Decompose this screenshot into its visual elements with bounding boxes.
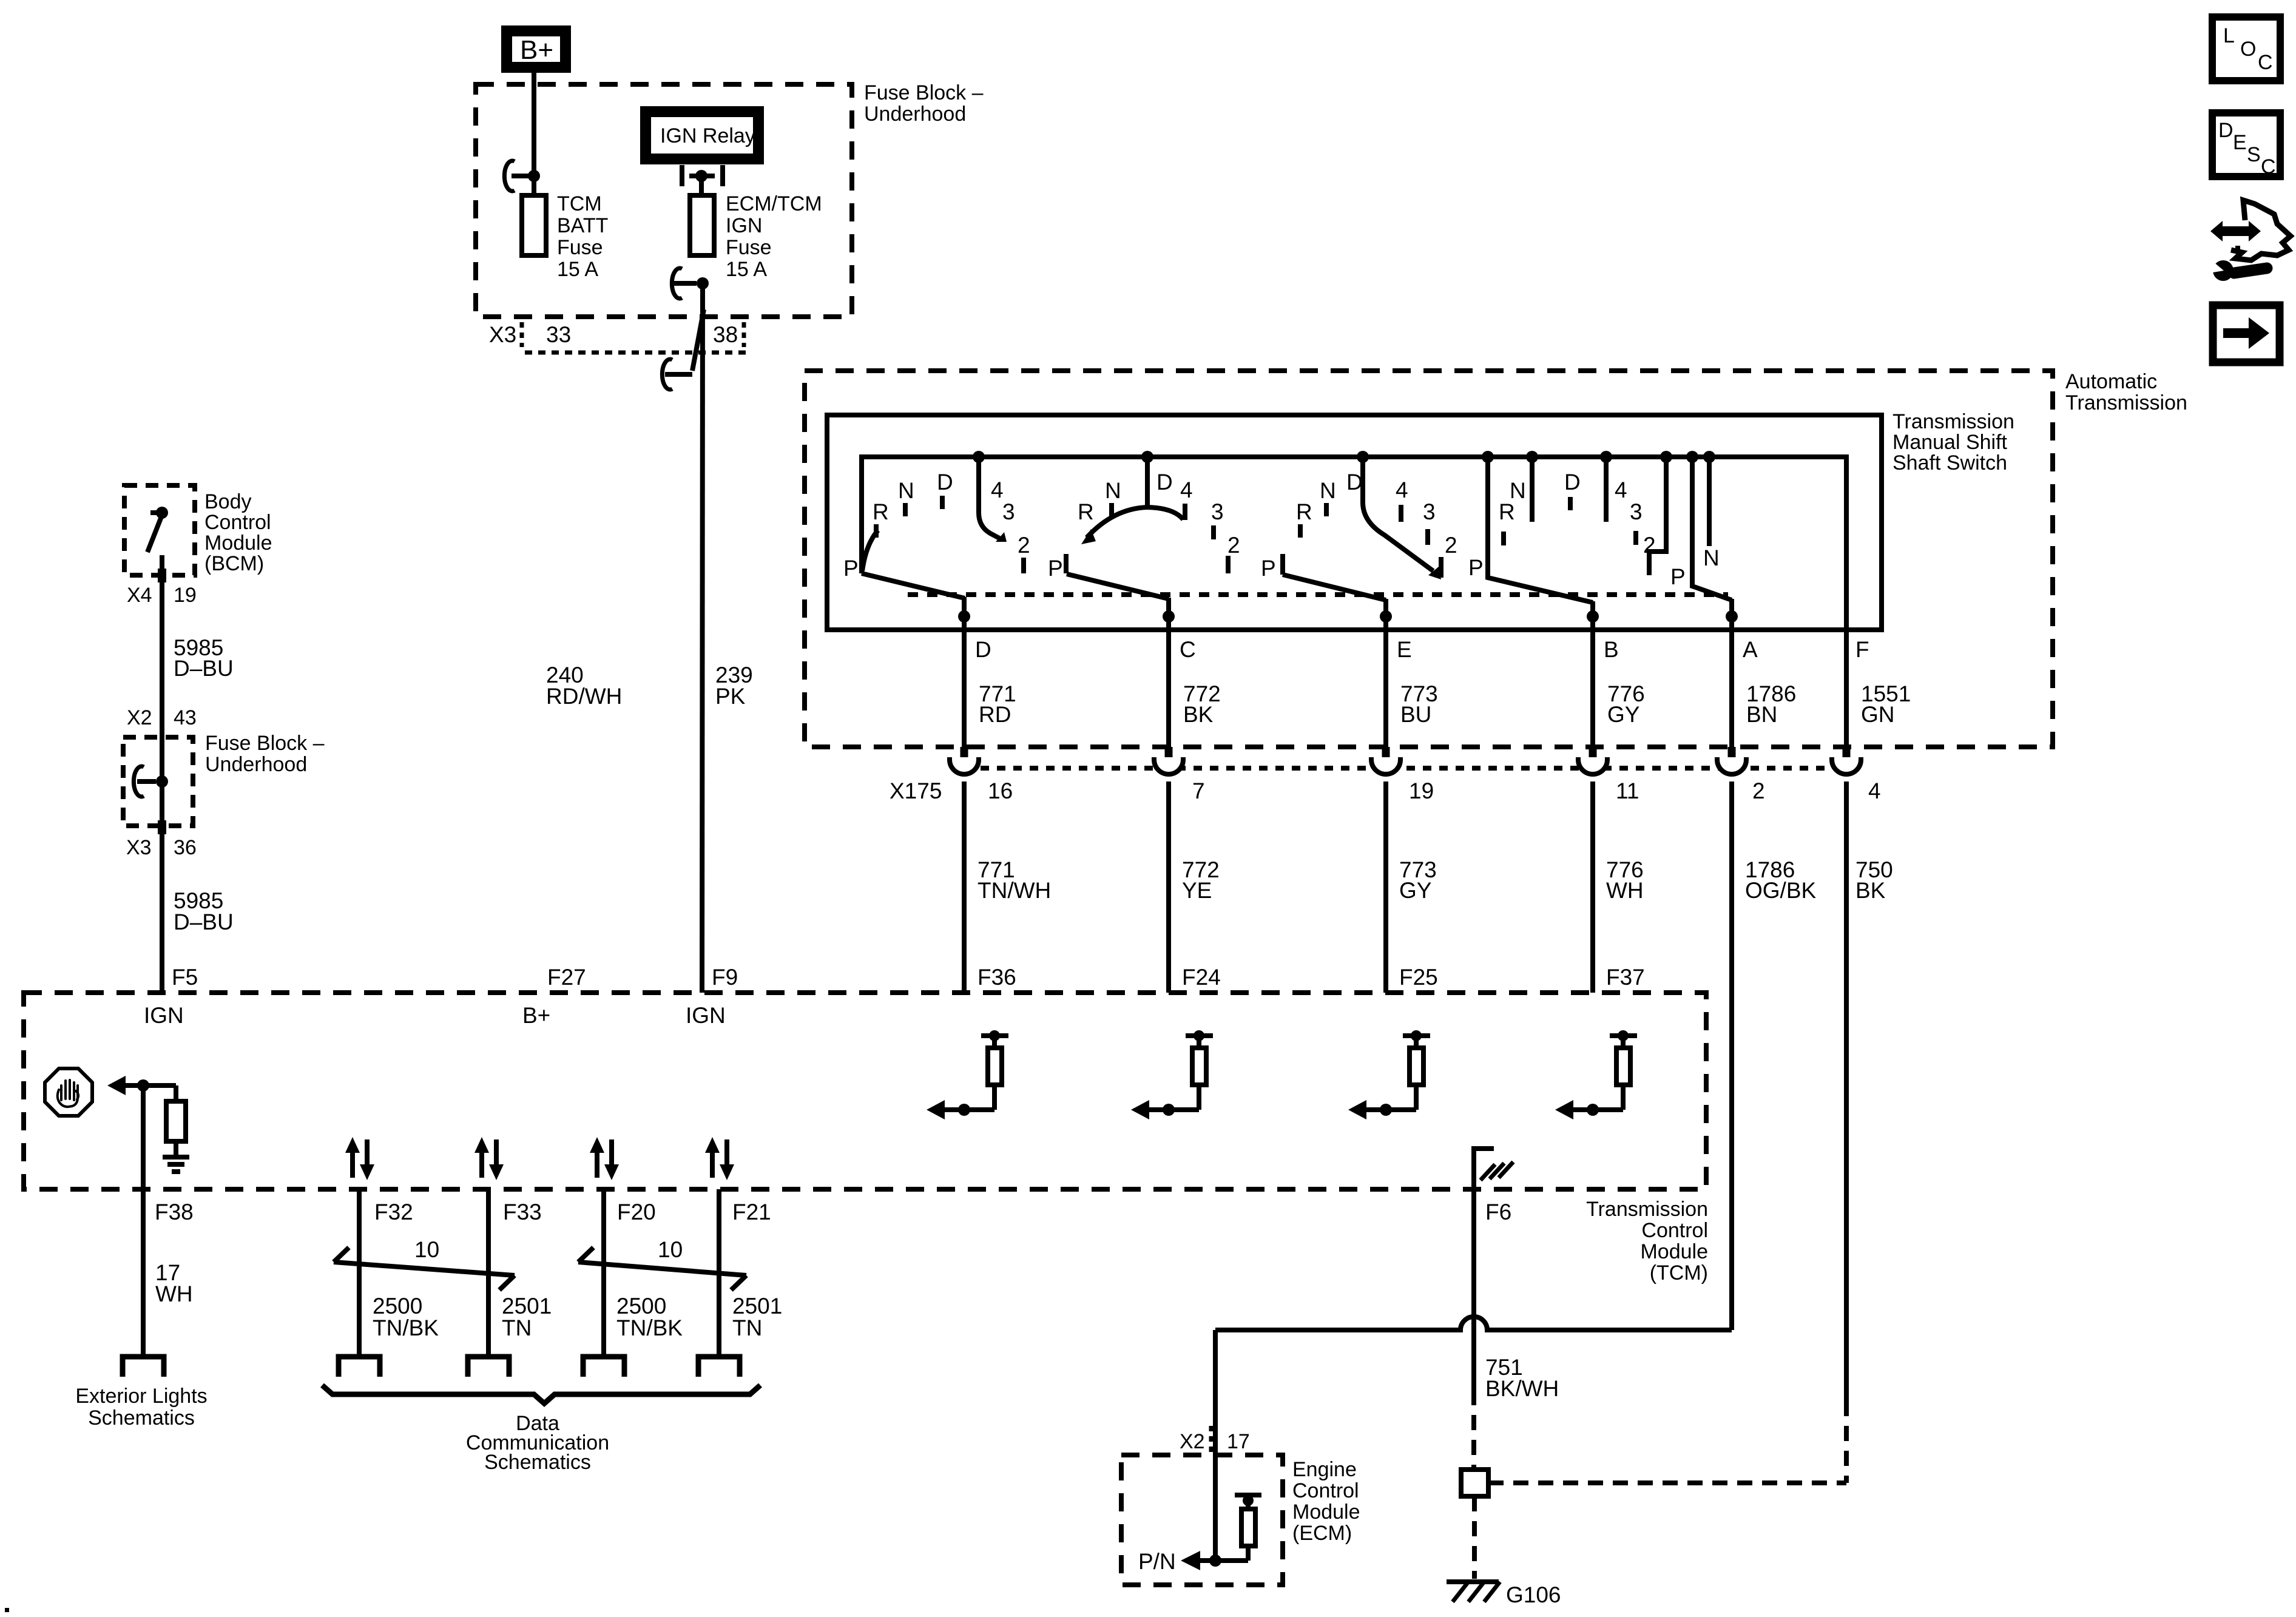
termination with pull-up resistor at x=1589 — [927, 1030, 1008, 1119]
svg-text:GN: GN — [1861, 702, 1895, 727]
svg-text:IGN Relay: IGN Relay — [660, 124, 755, 147]
svg-text:43: 43 — [174, 706, 197, 729]
automatic transmission dashed box — [805, 371, 2053, 747]
svg-text:(BCM): (BCM) — [204, 552, 264, 575]
icon LOC box — [2212, 17, 2280, 81]
connector X175 pin stub x=3043 — [1843, 747, 1851, 763]
wire label 5985 D-BU (lower) — [174, 888, 234, 934]
svg-text:TN: TN — [502, 1315, 532, 1340]
svg-text:Underhood: Underhood — [205, 753, 307, 776]
ground G106 — [1447, 1582, 1561, 1607]
svg-text:C: C — [1180, 637, 1196, 662]
svg-text:WH: WH — [1606, 878, 1644, 903]
svg-text:E: E — [2233, 131, 2247, 154]
svg-text:19: 19 — [1409, 778, 1434, 803]
connector X175 cup x=2284 — [1371, 757, 1400, 774]
connector X175 labels — [890, 778, 1881, 803]
wire 1786 OG/BK horizontal with hop — [1215, 1317, 1732, 1330]
svg-text:Exterior Lights: Exterior Lights — [75, 1385, 207, 1408]
svg-text:F32: F32 — [374, 1200, 413, 1224]
svg-text:YE: YE — [1182, 878, 1212, 903]
wire labels inside automatic transmission — [979, 681, 1911, 727]
svg-text:X175: X175 — [890, 778, 942, 803]
terminal bracket x=995 — [583, 1357, 624, 1377]
label Transmission Manual Shift Shaft Switch — [1893, 410, 2014, 474]
connector X175 cup x=2854 — [1717, 757, 1746, 774]
wire 750 BK dashed down — [1844, 1401, 1849, 1483]
junction on output x=2284 — [1380, 610, 1392, 623]
svg-text:Module: Module — [1292, 1501, 1360, 1524]
svg-text:D: D — [1564, 470, 1581, 495]
junction on bus x=1613 — [973, 451, 985, 463]
junction on bus x=2647 — [1600, 451, 1612, 463]
svg-text:F20: F20 — [617, 1200, 656, 1224]
svg-text:10: 10 — [414, 1237, 439, 1262]
switch group 2 labels and contacts — [1048, 470, 1240, 581]
svg-text:Fuse: Fuse — [726, 236, 772, 259]
svg-text:ECM/TCM: ECM/TCM — [726, 192, 822, 215]
svg-text:(ECM): (ECM) — [1292, 1522, 1352, 1545]
svg-text:F5: F5 — [172, 965, 198, 990]
svg-text:4: 4 — [1180, 478, 1193, 502]
svg-text:16: 16 — [988, 778, 1013, 803]
svg-text:17: 17 — [1227, 1430, 1250, 1453]
terminal bracket x=805 — [468, 1357, 509, 1377]
svg-text:X2: X2 — [127, 706, 152, 729]
wire relay to ECM/TCM IGN fuse — [699, 176, 704, 195]
twisted pair symbol F32/F33 — [334, 1237, 515, 1290]
wire 1786 OG/BK vertical — [1729, 781, 1734, 1330]
svg-text:WH: WH — [155, 1281, 193, 1306]
svg-text:IGN: IGN — [726, 214, 762, 237]
svg-text:2: 2 — [1752, 778, 1765, 803]
svg-text:D–BU: D–BU — [174, 910, 234, 934]
svg-text:IGN: IGN — [144, 1003, 184, 1028]
switch common dashed line — [908, 592, 1728, 597]
wire B+ to TCM BATT fuse — [532, 73, 536, 195]
svg-text:2500: 2500 — [373, 1294, 422, 1318]
TCM net labels below top edge — [144, 1003, 726, 1028]
svg-text:P: P — [1261, 556, 1276, 581]
svg-text:R: R — [1296, 499, 1312, 524]
svg-text:BATT: BATT — [557, 214, 608, 237]
svg-text:F33: F33 — [503, 1200, 542, 1224]
label Fuse Block - Underhood (left) — [205, 732, 325, 776]
svg-text:F: F — [1855, 637, 1869, 662]
svg-text:B+: B+ — [522, 1003, 550, 1028]
label Body Control Module (BCM) — [204, 490, 272, 575]
switch group 2 input from bus — [1145, 457, 1150, 508]
svg-text:Control: Control — [204, 511, 271, 534]
data arrows at F-pin x=592 — [345, 1137, 374, 1180]
svg-text:O: O — [2240, 38, 2256, 61]
svg-text:S: S — [2247, 143, 2261, 166]
svg-text:TCM: TCM — [557, 192, 602, 215]
svg-text:Schematics: Schematics — [484, 1451, 591, 1474]
connector X4 pin 19 — [127, 584, 197, 607]
svg-text:Fuse Block –: Fuse Block – — [864, 81, 984, 104]
svg-text:X4: X4 — [127, 584, 152, 607]
connector X2 pin 43 — [127, 706, 197, 729]
svg-text:19: 19 — [174, 584, 197, 607]
module Engine Control Module dashed box — [1121, 1455, 1283, 1585]
svg-text:C: C — [2261, 155, 2276, 178]
page corner mark — [5, 1608, 9, 1612]
svg-text:B: B — [1604, 637, 1619, 662]
switch group 3 moving contact from bus — [1363, 457, 1441, 579]
svg-text:N: N — [1703, 545, 1720, 570]
svg-text:Automatic: Automatic — [2065, 370, 2157, 393]
switch group 3 pole wire to output E — [1283, 554, 1386, 748]
data arrows at F-pin x=805 — [474, 1137, 504, 1180]
svg-text:15 A: 15 A — [557, 258, 598, 281]
svg-text:E: E — [1397, 637, 1412, 662]
svg-text:BN: BN — [1746, 702, 1777, 727]
junction on bus x=2746 — [1660, 451, 1672, 463]
svg-text:2500: 2500 — [616, 1294, 666, 1318]
svg-text:Manual Shift: Manual Shift — [1893, 431, 2008, 454]
TCM internal chassis ground at F6 — [1474, 1149, 1513, 1189]
wire from TCM bottom x=1185 — [717, 1189, 721, 1354]
svg-text:Engine: Engine — [1292, 1458, 1357, 1481]
svg-text:F38: F38 — [155, 1200, 194, 1224]
svg-text:X3: X3 — [126, 836, 152, 859]
svg-text:F36: F36 — [977, 965, 1016, 990]
svg-text:F24: F24 — [1182, 965, 1221, 990]
wire F5/F38 through TCM — [141, 1085, 146, 1354]
svg-text:11: 11 — [1616, 778, 1639, 803]
svg-text:Transmission: Transmission — [1586, 1198, 1708, 1221]
module Body Control Module (BCM) dashed box — [124, 485, 195, 575]
resistor to ground inside TCM — [163, 1085, 189, 1172]
terminal bracket x=592 — [339, 1357, 380, 1377]
label Engine Control Module (ECM) — [1292, 1458, 1360, 1545]
twisted pair symbol F20/F21 — [578, 1237, 746, 1290]
splice box S — [1461, 1470, 1488, 1496]
wire 751 dashed to splice box — [1471, 1390, 1476, 1470]
fuse block connection curl at TCM BATT fuse — [504, 161, 540, 191]
svg-text:N: N — [898, 478, 914, 503]
wire labels below X175 — [977, 857, 1893, 903]
transmission manual shift shaft switch box — [827, 415, 1882, 630]
junction on bus x=2246 — [1357, 451, 1369, 463]
svg-text:D: D — [2218, 119, 2234, 142]
label Data Communication Schematics — [466, 1412, 609, 1474]
svg-text:3: 3 — [1002, 499, 1015, 524]
svg-text:P/N: P/N — [1138, 1549, 1176, 1574]
svg-text:D: D — [975, 637, 991, 662]
data arrows at F-pin x=995 — [590, 1137, 619, 1180]
fuse block connection curl (left) — [133, 766, 168, 797]
svg-text:2: 2 — [1018, 533, 1030, 558]
wire label 5985 D-BU (upper) — [174, 635, 234, 681]
svg-text:Body: Body — [204, 490, 252, 513]
connector X3 pin 36 — [126, 836, 197, 859]
switch inside BCM — [147, 507, 168, 552]
svg-text:D–BU: D–BU — [174, 656, 234, 681]
svg-text:2501: 2501 — [732, 1294, 782, 1318]
svg-text:33: 33 — [546, 322, 571, 347]
svg-text:3: 3 — [1423, 499, 1436, 524]
svg-text:R: R — [873, 499, 889, 524]
label Fuse Block - Underhood — [864, 81, 984, 126]
svg-text:Control: Control — [1292, 1479, 1359, 1502]
module Transmission Control Module dashed box — [24, 993, 1706, 1189]
svg-text:N: N — [1320, 478, 1336, 503]
icon double-arrow with part outline and wrench — [2206, 200, 2291, 281]
svg-text:TN/BK: TN/BK — [373, 1315, 439, 1340]
fuse ECM/TCM IGN Fuse 15 A — [690, 192, 822, 281]
connector X175 cup x=2625 — [1578, 757, 1607, 774]
power feed B+ box — [507, 31, 566, 67]
svg-text:G106: G106 — [1506, 1582, 1561, 1607]
svg-text:F9: F9 — [712, 965, 738, 990]
svg-text:A: A — [1743, 637, 1758, 662]
wire 5985 D-BU from BCM to TCM F5 — [160, 555, 164, 993]
switch group 4 labels and contacts — [1468, 457, 1666, 580]
junction on output x=2625 — [1587, 610, 1599, 623]
svg-text:2: 2 — [1445, 533, 1457, 558]
icon right-arrow box — [2213, 305, 2280, 362]
svg-text:TN/BK: TN/BK — [616, 1315, 683, 1340]
switch common bus wire — [862, 457, 1846, 748]
svg-text:7: 7 — [1192, 778, 1205, 803]
svg-text:TN: TN — [732, 1315, 762, 1340]
wire 751 BK/WH labels — [1485, 1355, 1559, 1401]
svg-text:4: 4 — [1396, 478, 1408, 502]
arrow into stop-hand — [107, 1076, 176, 1095]
svg-text:TN/WH: TN/WH — [977, 878, 1051, 903]
termination with pull-up resistor at x=2625 — [1555, 1030, 1637, 1119]
switch group 1 blade toward R — [862, 530, 878, 571]
termination with pull-up resistor at x=1926 — [1131, 1030, 1213, 1119]
label Automatic Transmission — [2065, 370, 2187, 414]
svg-text:Fuse: Fuse — [557, 236, 603, 259]
junction on bus x=2817 — [1703, 451, 1715, 463]
svg-text:BK: BK — [1855, 878, 1886, 903]
svg-text:F27: F27 — [547, 965, 586, 990]
svg-text:38: 38 — [713, 322, 738, 347]
connector stub X3-36 — [158, 820, 166, 834]
connector X2 pin 17 — [1180, 1426, 1250, 1453]
junction on bus x=2789 — [1686, 451, 1698, 463]
svg-text:Transmission: Transmission — [1893, 410, 2014, 433]
wire IGN fuse output — [702, 283, 703, 993]
switch output pin letters — [975, 637, 1869, 662]
svg-text:15 A: 15 A — [726, 258, 767, 281]
TCM pin labels top — [172, 965, 1645, 990]
wire 240 RD/WH label — [546, 663, 622, 709]
junction on output x=2854 — [1726, 610, 1738, 623]
termination with pull-up resistor at x=2284 — [1348, 1030, 1430, 1119]
junction on output x=1926 — [1163, 610, 1175, 623]
svg-text:Shaft Switch: Shaft Switch — [1893, 451, 2007, 474]
svg-text:Module: Module — [1640, 1240, 1708, 1263]
switch group 1 moving contact from bus — [979, 457, 1007, 542]
svg-text:P: P — [1468, 555, 1484, 580]
relay contact bracket — [682, 165, 723, 186]
icon DESC box — [2212, 113, 2280, 178]
switch group 3 labels and contacts — [1261, 470, 1457, 581]
terminal bracket x=1185 — [698, 1357, 740, 1377]
wire 751 BK/WH from F6 — [1471, 1189, 1476, 1390]
svg-text:N: N — [1510, 478, 1526, 503]
connector X175 dotted line — [981, 766, 1831, 771]
svg-text:GY: GY — [1399, 878, 1431, 903]
TCM pin labels bottom — [155, 1200, 1511, 1224]
svg-text:X2: X2 — [1180, 1430, 1205, 1453]
svg-text:RD/WH: RD/WH — [546, 684, 622, 709]
wire 750 BK vertical solid — [1844, 781, 1849, 1401]
svg-text:D: D — [937, 470, 953, 495]
svg-text:2501: 2501 — [502, 1294, 552, 1318]
svg-text:36: 36 — [174, 836, 197, 859]
fuse TCM BATT Fuse 15 A — [522, 192, 608, 281]
fuse block underhood small dashed box — [123, 737, 193, 826]
wire from TCM bottom x=805 — [486, 1189, 491, 1354]
wires from X175 to TCM — [962, 781, 967, 993]
svg-text:3: 3 — [1630, 499, 1643, 524]
dashed wire splice to 750 BK — [1488, 1480, 1846, 1485]
svg-text:10: 10 — [658, 1237, 683, 1262]
dashed wire splice to G106 — [1472, 1496, 1477, 1579]
svg-text:C: C — [2258, 51, 2273, 74]
svg-text:2: 2 — [1227, 533, 1240, 558]
label Transmission Control Module (TCM) — [1586, 1198, 1708, 1284]
data wire labels — [373, 1294, 782, 1340]
svg-text:B+: B+ — [520, 35, 553, 65]
switch group 1 labels and contacts — [843, 470, 1030, 581]
svg-text:Fuse Block –: Fuse Block – — [205, 732, 325, 755]
svg-text:N: N — [1105, 478, 1121, 503]
svg-text:BK/WH: BK/WH — [1485, 1376, 1559, 1401]
svg-text:IGN: IGN — [686, 1003, 726, 1028]
connector X175 pin stub x=2625 — [1589, 747, 1597, 763]
fuse block connection curl below IGN fuse — [672, 268, 709, 299]
connector X175 cup x=3043 — [1832, 757, 1861, 774]
svg-text:BU: BU — [1400, 702, 1431, 727]
warning stop-hand icon — [45, 1068, 92, 1116]
svg-text:Module: Module — [204, 532, 272, 555]
svg-text:L: L — [2223, 24, 2235, 47]
svg-text:Control: Control — [1641, 1219, 1708, 1242]
switch group 2 pole wire to output C — [1066, 554, 1169, 748]
switch group 5 labels and contacts — [1670, 457, 1720, 589]
connector X175 pin stub x=1589 — [961, 747, 968, 763]
connector X3 row — [489, 322, 746, 353]
svg-text:P: P — [843, 556, 859, 581]
svg-text:BK: BK — [1183, 702, 1214, 727]
termination P/N inside ECM — [1138, 1495, 1261, 1574]
svg-text:4: 4 — [1615, 478, 1627, 502]
junction on bus x=2452 — [1482, 451, 1494, 463]
connector X175 cup x=1926 — [1154, 757, 1183, 774]
svg-text:D: D — [1156, 470, 1173, 495]
svg-text:3: 3 — [1211, 499, 1224, 524]
wire 1786 OG/BK down to ECM — [1213, 1330, 1218, 1561]
wire label 17 WH — [155, 1260, 193, 1306]
switch group 4 pole wire to output B — [1488, 457, 1593, 748]
svg-text:F25: F25 — [1399, 965, 1438, 990]
relay switch blade at X3 — [692, 309, 704, 371]
wire from TCM bottom x=592 — [357, 1189, 362, 1354]
svg-text:F37: F37 — [1606, 965, 1645, 990]
wire from TCM bottom x=995 — [601, 1189, 606, 1354]
svg-text:P: P — [1048, 556, 1063, 581]
svg-text:4: 4 — [1868, 778, 1881, 803]
connector X175 pin stub x=2854 — [1728, 747, 1736, 763]
switch group 5 pole wire to output A — [1692, 457, 1732, 748]
svg-text:(TCM): (TCM) — [1650, 1261, 1708, 1284]
svg-text:R: R — [1078, 499, 1094, 524]
switch group 1 pole wire to output D — [862, 573, 965, 748]
svg-text:OG/BK: OG/BK — [1745, 878, 1817, 903]
fuse block underhood dashed box — [476, 84, 852, 317]
brace under data terminals — [322, 1385, 760, 1403]
switch group 2 moving contact arc R to 4 — [1081, 507, 1183, 544]
data arrows at F-pin x=1185 — [705, 1137, 734, 1180]
connector X175 pin stub x=1926 — [1165, 747, 1173, 763]
label Exterior Lights Schematics — [75, 1385, 207, 1430]
svg-text:RD: RD — [979, 702, 1011, 727]
svg-text:Underhood: Underhood — [864, 103, 966, 126]
wire 239 PK label — [715, 663, 753, 709]
svg-text:P: P — [1670, 564, 1686, 589]
svg-text:F21: F21 — [732, 1200, 771, 1224]
connector X175 cup x=1589 — [950, 757, 979, 774]
svg-text:D: D — [1346, 470, 1363, 495]
svg-text:Schematics: Schematics — [88, 1406, 195, 1430]
svg-text:X3: X3 — [489, 322, 516, 347]
svg-text:PK: PK — [715, 684, 746, 709]
svg-text:4: 4 — [991, 478, 1004, 502]
connector stub X4 — [158, 569, 166, 582]
svg-text:GY: GY — [1607, 702, 1639, 727]
connector X175 pin stub x=2284 — [1382, 747, 1390, 763]
relay K IGN Relay box — [646, 112, 758, 159]
svg-text:F6: F6 — [1485, 1200, 1511, 1224]
svg-text:Transmission: Transmission — [2065, 391, 2187, 414]
junction on bus x=1891 — [1141, 451, 1153, 463]
junction on bus x=2525 — [1526, 451, 1538, 463]
terminal bracket x=236 — [123, 1357, 164, 1377]
fuse block connection curl at relay blade — [662, 359, 692, 390]
junction on output x=1589 — [958, 610, 970, 623]
svg-text:R: R — [1499, 499, 1515, 524]
